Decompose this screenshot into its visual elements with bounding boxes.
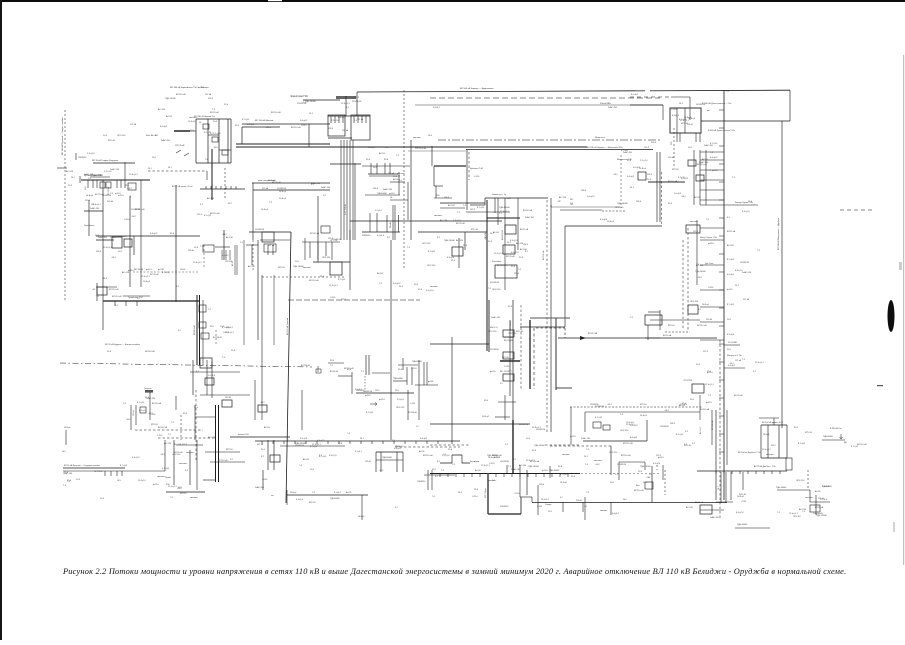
svg-text:115,2: 115,2 bbox=[470, 209, 476, 211]
svg-text:ВЛ 35 кВ число +3+об: ВЛ 35 кВ число +3+об bbox=[172, 186, 193, 188]
svg-text:25,0: 25,0 bbox=[194, 407, 199, 409]
svg-text:7,4: 7,4 bbox=[584, 506, 587, 508]
wire faint long bbox=[415, 104, 663, 106]
svg-text:2хАС-150: 2хАС-150 bbox=[699, 161, 709, 164]
wire dashed bbox=[664, 470, 666, 495]
wire dashed bbox=[545, 444, 580, 446]
svg-text:0,4+j0,2: 0,4+j0,2 bbox=[710, 157, 718, 159]
svg-text:Буйнакск Т-Ш: Буйнакск Т-Ш bbox=[470, 167, 483, 170]
substation bottom bbox=[362, 231, 400, 233]
svg-text:118,4: 118,4 bbox=[514, 273, 520, 275]
wire bbox=[205, 451, 240, 453]
substation rail bbox=[376, 213, 378, 232]
line ВЛ 110 кВ bbox=[242, 123, 330, 125]
svg-text:10,5: 10,5 bbox=[103, 135, 108, 137]
svg-text:ф.110: ф.110 bbox=[706, 401, 712, 404]
svg-text:12,4+j5,1: 12,4+j5,1 bbox=[341, 103, 350, 105]
svg-text:ВЛ 35 кВ: ВЛ 35 кВ bbox=[210, 112, 219, 114]
spine tick bbox=[719, 415, 724, 417]
feeder tick bbox=[261, 441, 263, 444]
substation box bbox=[700, 505, 712, 514]
svg-text:ВЛ 110 кВ Миатли: ВЛ 110 кВ Миатли bbox=[255, 120, 274, 122]
svg-text:Т-1: Т-1 bbox=[518, 269, 522, 271]
svg-text:118,4: 118,4 bbox=[581, 190, 587, 192]
svg-text:ВЛ 110 кВ: ВЛ 110 кВ bbox=[857, 444, 867, 446]
svg-text:115,2: 115,2 bbox=[656, 455, 662, 457]
wire label underline bbox=[93, 162, 135, 164]
svg-text:Т-2: Т-2 bbox=[441, 470, 445, 472]
wire bbox=[196, 440, 198, 490]
wire bbox=[410, 140, 412, 240]
svg-text:2хАС-150: 2хАС-150 bbox=[525, 216, 535, 219]
wire long bbox=[390, 240, 392, 440]
svg-text:С-110: С-110 bbox=[330, 297, 336, 299]
wire bbox=[659, 152, 661, 222]
wire tick bbox=[225, 250, 227, 260]
svg-text:ВЛ 110 кВ: ВЛ 110 кВ bbox=[309, 280, 319, 282]
svg-text:8,7+j3,1: 8,7+j3,1 bbox=[851, 446, 859, 448]
svg-text:Белиджи: Белиджи bbox=[470, 461, 480, 463]
svg-text:ВЛ 110 кВ Леваши: ВЛ 110 кВ Леваши bbox=[287, 318, 289, 335]
svg-text:10,5: 10,5 bbox=[62, 451, 66, 453]
wire bundle bbox=[352, 140, 354, 240]
wire bbox=[96, 286, 117, 288]
label blob bbox=[145, 390, 153, 393]
svg-text:24,1: 24,1 bbox=[496, 457, 501, 459]
wire dash-dot feeder left bbox=[64, 110, 66, 300]
svg-text:6,3+j2,4: 6,3+j2,4 bbox=[377, 235, 384, 237]
svg-text:ф.110: ф.110 bbox=[379, 398, 385, 401]
substation box bbox=[688, 305, 698, 314]
feeder tick bbox=[559, 473, 561, 477]
substation box bbox=[503, 352, 514, 359]
wire bbox=[699, 133, 701, 142]
svg-text:ВЛ 35 кВ: ВЛ 35 кВ bbox=[330, 371, 338, 373]
wire dashed bbox=[262, 276, 345, 278]
svg-text:112 кВ: 112 кВ bbox=[743, 299, 750, 301]
svg-text:Самур: Самур bbox=[545, 504, 552, 506]
feeder tick bbox=[755, 471, 757, 474]
svg-text:10,5: 10,5 bbox=[295, 261, 300, 263]
wire bbox=[585, 411, 700, 413]
wire bbox=[317, 242, 319, 262]
spine tick bbox=[719, 145, 724, 147]
svg-text:Т-2: Т-2 bbox=[212, 109, 216, 111]
wire bbox=[202, 300, 204, 365]
line stair bbox=[564, 226, 566, 327]
svg-text:АСТП 06 ДизПол + ГОб: АСТП 06 ДизПол + ГОб bbox=[754, 465, 777, 468]
feeder tick bbox=[125, 301, 127, 306]
svg-text:16,8+j4: 16,8+j4 bbox=[133, 410, 135, 416]
wire bbox=[584, 497, 586, 520]
svg-text:8,7+j3,1: 8,7+j3,1 bbox=[678, 177, 686, 179]
svg-text:3,2: 3,2 bbox=[178, 330, 181, 332]
wire dash-dot bbox=[533, 328, 535, 389]
wire bbox=[192, 360, 194, 395]
svg-text:ф.110: ф.110 bbox=[708, 242, 714, 245]
svg-text:Т-2: Т-2 bbox=[732, 177, 736, 179]
wire stub bbox=[724, 367, 745, 369]
feeder tick bbox=[715, 471, 717, 474]
svg-text:Ботлих 110: Ботлих 110 bbox=[238, 434, 250, 436]
substation Каспийск bbox=[495, 265, 517, 278]
svg-text:12,4+j5,1: 12,4+j5,1 bbox=[141, 276, 150, 278]
svg-text:10,5: 10,5 bbox=[178, 487, 183, 489]
svg-text:35,6: 35,6 bbox=[488, 241, 493, 243]
wire stub bbox=[700, 227, 724, 229]
svg-text:С-110: С-110 bbox=[489, 463, 495, 465]
svg-text:ЗА кВт: ЗА кВт bbox=[389, 222, 392, 228]
svg-text:ВГ+ 110/35 Т: ВГ+ 110/35 Т bbox=[500, 371, 513, 373]
wire bbox=[219, 149, 231, 151]
wire bbox=[206, 171, 208, 180]
svg-text:118,4: 118,4 bbox=[328, 128, 334, 130]
bus dashed continuation bbox=[545, 473, 660, 475]
svg-text:В 330 кВ Дагестанская — По: В 330 кВ Дагестанская — По bbox=[702, 103, 732, 105]
wire bbox=[466, 150, 468, 210]
svg-text:24,1: 24,1 bbox=[360, 438, 365, 440]
wire dashed bottom-left (skewed dash-dot) bbox=[60, 363, 312, 367]
wire light bbox=[408, 150, 466, 152]
cell box bbox=[222, 150, 228, 155]
svg-text:16,8+j4: 16,8+j4 bbox=[482, 416, 490, 418]
svg-text:зим.мин.: зим.мин. bbox=[303, 267, 312, 269]
wire bbox=[190, 130, 196, 132]
svg-text:АС-95: АС-95 bbox=[815, 490, 822, 493]
line spine right bbox=[723, 91, 725, 501]
wire bbox=[223, 230, 225, 260]
svg-text:110/35/10: 110/35/10 bbox=[500, 506, 508, 508]
svg-text:С-110: С-110 bbox=[124, 219, 130, 221]
switchgear box bbox=[112, 237, 122, 248]
svg-text:6,3+j2,4: 6,3+j2,4 bbox=[426, 290, 434, 292]
svg-text:3,2: 3,2 bbox=[395, 507, 398, 509]
substation box bbox=[200, 358, 212, 368]
wire stub above bus bbox=[506, 465, 508, 473]
svg-text:ТДН-16000: ТДН-16000 bbox=[377, 193, 387, 195]
wire stub bbox=[700, 289, 724, 291]
wire stub bbox=[724, 344, 740, 346]
svg-text:25,0: 25,0 bbox=[338, 443, 343, 445]
wire dashed bbox=[180, 415, 182, 440]
svg-text:16,8+j4: 16,8+j4 bbox=[607, 221, 615, 223]
svg-text:ТДН-16000: ТДН-16000 bbox=[444, 240, 455, 242]
svg-text:2хАС-150: 2хАС-150 bbox=[161, 139, 171, 142]
spine tick bbox=[719, 163, 724, 165]
svg-text:15,2-ОВБ: 15,2-ОВБ bbox=[728, 342, 737, 344]
wire dashed bbox=[215, 330, 217, 345]
wire bbox=[451, 337, 453, 444]
svg-text:ЗРУ 10,5 кВ: ЗРУ 10,5 кВ bbox=[415, 148, 427, 150]
svg-text:16: 16 bbox=[390, 197, 393, 199]
wire dashed detour bbox=[661, 172, 663, 226]
wire bbox=[434, 197, 452, 199]
svg-text:110/35/10: 110/35/10 bbox=[362, 235, 370, 237]
svg-text:ОРУ-110: ОРУ-110 bbox=[615, 207, 624, 209]
svg-text:С-110: С-110 bbox=[474, 176, 480, 178]
svg-text:35,6: 35,6 bbox=[668, 203, 673, 205]
jumper mark bbox=[176, 150, 189, 156]
generator ladder rail bbox=[218, 119, 220, 163]
svg-text:16,8+j4: 16,8+j4 bbox=[279, 191, 287, 193]
wire bbox=[130, 405, 132, 430]
arrow right small bbox=[370, 403, 377, 406]
wire bundle dark bbox=[199, 295, 201, 365]
svg-text:зим.мин.: зим.мин. bbox=[179, 463, 188, 465]
svg-text:ВЛ 110 кВ: ВЛ 110 кВ bbox=[145, 351, 155, 353]
svg-text:КРУ-10: КРУ-10 bbox=[226, 449, 234, 451]
svg-text:12,4+j5,1: 12,4+j5,1 bbox=[541, 499, 549, 501]
svg-text:24,1: 24,1 bbox=[309, 113, 314, 115]
wire bbox=[504, 198, 506, 290]
svg-text:+ПА: +ПА bbox=[646, 476, 650, 479]
cell box bbox=[199, 305, 206, 312]
line to spine bbox=[558, 337, 717, 339]
svg-text:16,4: 16,4 bbox=[428, 135, 433, 137]
svg-text:14: 14 bbox=[199, 122, 201, 124]
svg-text:110/35/10: 110/35/10 bbox=[295, 445, 305, 447]
wire bundle dark bbox=[196, 295, 198, 365]
feeder tick bbox=[747, 471, 749, 474]
svg-text:2,2+j1,0: 2,2+j1,0 bbox=[213, 133, 221, 135]
line long right bbox=[781, 121, 783, 428]
line ВЛ 330 кВ Чирюрт — Махачкала dash-dot bbox=[438, 139, 660, 141]
wire stub bbox=[700, 159, 724, 161]
wire bbox=[583, 440, 647, 442]
svg-text:35,6: 35,6 bbox=[484, 400, 489, 402]
svg-text:-14,2: -14,2 bbox=[160, 454, 166, 456]
line ВЛ 330 кВ bbox=[466, 149, 653, 151]
svg-text:АС-95: АС-95 bbox=[166, 115, 173, 118]
substation box bbox=[321, 226, 330, 233]
svg-text:3,2: 3,2 bbox=[692, 443, 696, 445]
svg-text:2,2+j1,0: 2,2+j1,0 bbox=[397, 399, 404, 401]
svg-text:ТДН-16000: ТДН-16000 bbox=[165, 98, 176, 100]
svg-text:ОРУ-110: ОРУ-110 bbox=[396, 407, 405, 409]
feeder tick bbox=[551, 473, 553, 477]
wire bbox=[208, 134, 219, 136]
wire bbox=[392, 205, 394, 240]
svg-text:ТДН-16000: ТДН-16000 bbox=[776, 487, 787, 489]
svg-text:0,4+j0,2: 0,4+j0,2 bbox=[630, 437, 638, 439]
wire dash-dot bbox=[550, 445, 611, 447]
substation Дербент-330 rail bbox=[760, 425, 762, 458]
wire bbox=[726, 410, 728, 465]
svg-text:АС-95: АС-95 bbox=[264, 426, 271, 429]
svg-text:25,0: 25,0 bbox=[395, 390, 399, 392]
wire dashed bbox=[252, 240, 254, 270]
svg-text:2хАС-150: 2хАС-150 bbox=[742, 271, 752, 274]
wire bbox=[618, 462, 620, 480]
generator tick bbox=[342, 116, 344, 123]
svg-text:35,6: 35,6 bbox=[508, 306, 513, 308]
wire bbox=[133, 236, 135, 255]
svg-text:8,7+j3,1: 8,7+j3,1 bbox=[355, 451, 362, 453]
svg-text:112 кВ: 112 кВ bbox=[668, 157, 675, 159]
svg-text:112 кВ: 112 кВ bbox=[268, 245, 275, 247]
svg-text:вм: вм bbox=[707, 110, 710, 112]
svg-text:10,5: 10,5 bbox=[727, 319, 732, 321]
svg-text:7,4: 7,4 bbox=[63, 485, 67, 487]
svg-text:Т-1: Т-1 bbox=[170, 497, 174, 499]
wire dash-dot bbox=[148, 170, 207, 172]
svg-text:АС-120: АС-120 bbox=[207, 197, 215, 200]
svg-text:24,8+j6: 24,8+j6 bbox=[86, 195, 94, 197]
feeder tick bbox=[124, 180, 126, 188]
wire bbox=[407, 182, 409, 220]
wire tick bbox=[75, 153, 77, 160]
wire bbox=[431, 470, 433, 490]
substation rail bbox=[369, 213, 371, 232]
wire long bbox=[261, 275, 263, 420]
wire bundle thick gray bbox=[354, 163, 356, 240]
svg-text:2хАС-150: 2хАС-150 bbox=[383, 188, 393, 191]
wire stub bbox=[700, 179, 724, 181]
svg-text:24,1: 24,1 bbox=[679, 103, 684, 105]
svg-text:ВЛ 35 кВ: ВЛ 35 кВ bbox=[95, 194, 104, 196]
svg-text:110/35/10: 110/35/10 bbox=[660, 426, 670, 428]
feeder tick bbox=[96, 180, 98, 188]
wire bbox=[189, 450, 191, 485]
svg-text:ВЛ 110 кВ: ВЛ 110 кВ bbox=[218, 460, 228, 462]
svg-text:16,8+j4: 16,8+j4 bbox=[279, 198, 287, 200]
svg-text:ТДН-16000: ТДН-16000 bbox=[382, 457, 392, 459]
svg-text:Т-1: Т-1 bbox=[379, 283, 383, 285]
svg-text:35,6: 35,6 bbox=[373, 167, 377, 169]
svg-text:3,2: 3,2 bbox=[185, 470, 189, 472]
svg-text:2хАС-150: 2хАС-150 bbox=[146, 397, 156, 400]
svg-text:ВЛ 104 об Дербент 2 Об: ВЛ 104 об Дербент 2 Об bbox=[738, 452, 762, 454]
svg-text:ВЛ 35 кВ: ВЛ 35 кВ bbox=[504, 340, 513, 342]
wire bbox=[203, 479, 216, 481]
svg-text:ВЛ 110 кВ: ВЛ 110 кВ bbox=[623, 443, 633, 445]
substation rail bbox=[386, 215, 388, 232]
svg-text:С-110: С-110 bbox=[514, 493, 520, 495]
wire bbox=[166, 491, 205, 493]
wire bbox=[415, 384, 438, 386]
svg-text:0,4+j0,2: 0,4+j0,2 bbox=[433, 107, 440, 109]
svg-text:АС-120: АС-120 bbox=[248, 265, 256, 268]
svg-text:110/35/10: 110/35/10 bbox=[131, 209, 141, 211]
svg-text:АС-120: АС-120 bbox=[519, 464, 527, 467]
svg-text:10,5: 10,5 bbox=[100, 498, 105, 500]
svg-text:7,4: 7,4 bbox=[620, 414, 624, 416]
cell box bbox=[199, 322, 206, 328]
spine tick bbox=[719, 253, 724, 255]
wire stub bbox=[700, 204, 724, 206]
wire bundle end bbox=[365, 355, 367, 375]
svg-text:ВЛ 330 кВ: ВЛ 330 кВ bbox=[543, 250, 545, 260]
svg-text:ВЛ 110 кВ: ВЛ 110 кВ bbox=[176, 94, 186, 96]
wire bbox=[644, 462, 646, 470]
feeder tick bbox=[763, 471, 765, 474]
wire bbox=[372, 372, 390, 374]
bus Ирганай bbox=[81, 179, 150, 181]
generator box Чирюрт-1 bbox=[328, 115, 345, 136]
svg-text:110/35/10: 110/35/10 bbox=[352, 101, 362, 103]
svg-text:2хАС-150: 2хАС-150 bbox=[491, 316, 501, 319]
svg-text:ВЛ 110 кВ: ВЛ 110 кВ bbox=[492, 455, 502, 457]
svg-text:АС-95: АС-95 bbox=[702, 158, 709, 161]
svg-text:Чирюртская ГЭС: Чирюртская ГЭС bbox=[290, 96, 308, 98]
svg-text:16,8+j4: 16,8+j4 bbox=[640, 415, 648, 417]
svg-text:8,7+j3,1: 8,7+j3,1 bbox=[428, 251, 436, 253]
svg-text:8,7+j3,1: 8,7+j3,1 bbox=[477, 207, 485, 209]
svg-text:16,8+j4: 16,8+j4 bbox=[737, 496, 745, 498]
svg-text:35,6: 35,6 bbox=[511, 266, 516, 268]
svg-text:118,4: 118,4 bbox=[647, 174, 653, 176]
svg-text:ф.110: ф.110 bbox=[707, 371, 713, 374]
svg-text:0,4+j0,2: 0,4+j0,2 bbox=[150, 233, 158, 235]
svg-text:24,1: 24,1 bbox=[148, 168, 153, 170]
feeder tick bbox=[503, 473, 505, 477]
svg-text:24,1: 24,1 bbox=[125, 185, 130, 187]
line thick Буйнакск bbox=[434, 165, 466, 167]
svg-text:16,8+j4: 16,8+j4 bbox=[763, 434, 769, 436]
wire bbox=[487, 217, 520, 219]
line thick Белиджи bottom bbox=[488, 513, 521, 515]
svg-text:2хАС-150: 2хАС-150 bbox=[90, 207, 100, 210]
wire bbox=[398, 172, 400, 195]
svg-text:Рисунок 2.2 Потоки мощности и: Рисунок 2.2 Потоки мощности и уровни нап… bbox=[62, 567, 846, 576]
wire stub bbox=[700, 239, 724, 241]
svg-text:ТДН-16000: ТДН-16000 bbox=[617, 203, 628, 205]
svg-text:25,0: 25,0 bbox=[727, 349, 732, 351]
wire bbox=[304, 238, 306, 260]
svg-text:ОРУ-110: ОРУ-110 bbox=[620, 430, 629, 432]
svg-text:КРУ-10: КРУ-10 bbox=[805, 432, 813, 434]
generator box Чирюрт-2 bbox=[351, 115, 370, 140]
svg-text:ТДН-16000: ТДН-16000 bbox=[823, 436, 833, 438]
svg-text:ДВ: ДВ bbox=[844, 442, 847, 444]
svg-text:ВЛ 110 кВ Ирганай — Гимры отпа: ВЛ 110 кВ Ирганай — Гимры отпайка bbox=[61, 117, 64, 155]
wire bbox=[693, 150, 695, 205]
svg-text:ТДН-16000: ТДН-16000 bbox=[499, 207, 510, 209]
feeder tick bbox=[120, 180, 122, 188]
wire bbox=[84, 210, 103, 212]
svg-text:АС-95: АС-95 bbox=[694, 196, 701, 199]
svg-text:ТДН-16000: ТДН-16000 bbox=[534, 445, 545, 447]
wire stub bbox=[700, 199, 724, 201]
svg-text:2,2+j1,0: 2,2+j1,0 bbox=[442, 455, 450, 457]
svg-text:2,2+j1,0: 2,2+j1,0 bbox=[453, 220, 461, 222]
svg-text:зим.мин.: зим.мин. bbox=[189, 117, 198, 119]
svg-text:25,0: 25,0 bbox=[432, 469, 437, 471]
wire bbox=[234, 245, 236, 275]
wire jog bbox=[520, 496, 532, 498]
svg-text:КРУ-10: КРУ-10 bbox=[180, 493, 186, 495]
wire bbox=[509, 320, 511, 396]
svg-text:АС-120: АС-120 bbox=[686, 506, 694, 509]
svg-text:115,2: 115,2 bbox=[375, 390, 380, 392]
feeder tick bbox=[567, 473, 569, 477]
svg-text:В 330 кВ Ген: В 330 кВ Ген bbox=[830, 428, 842, 430]
svg-text:ВЛ 110 кВ: ВЛ 110 кВ bbox=[697, 325, 707, 327]
svg-text:8,7+j3,1: 8,7+j3,1 bbox=[798, 443, 806, 445]
svg-text:35,6: 35,6 bbox=[183, 413, 188, 415]
text speckle field bbox=[63, 86, 867, 517]
svg-text:112 кВ: 112 кВ bbox=[687, 124, 693, 126]
svg-text:35,6: 35,6 bbox=[330, 360, 335, 362]
svg-text:35,6: 35,6 bbox=[85, 187, 87, 191]
svg-text:З+ГУ 110 кВ: З+ГУ 110 кВ bbox=[345, 204, 347, 215]
svg-text:ОРУ-110: ОРУ-110 bbox=[322, 257, 331, 259]
svg-text:112 кВ: 112 кВ bbox=[262, 188, 269, 190]
svg-text:12,4+j5,1: 12,4+j5,1 bbox=[500, 211, 509, 213]
arrow bbox=[580, 336, 586, 340]
svg-text:Т-1: Т-1 bbox=[96, 296, 100, 298]
svg-text:КРУ-10: КРУ-10 bbox=[108, 140, 116, 142]
